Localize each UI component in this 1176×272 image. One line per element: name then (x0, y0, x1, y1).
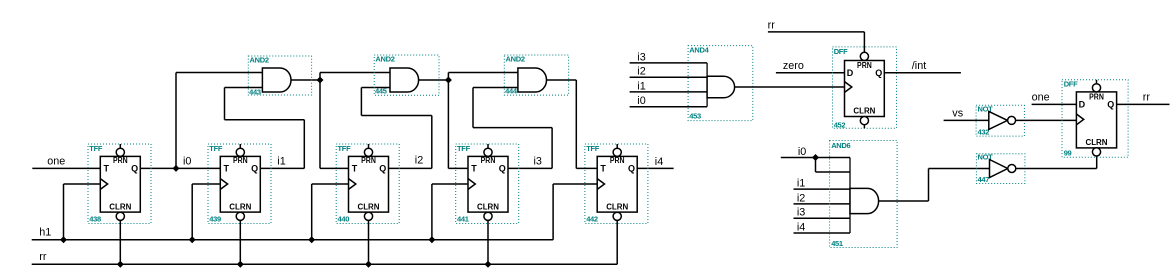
svg-text:i4: i4 (655, 156, 663, 168)
T flip-flop 439 (TFF) (208, 144, 271, 224)
svg-text:one: one (1032, 91, 1050, 103)
wire: AND4 453 output to DFF 452 clock (735, 86, 845, 88)
AND2 gate 444 (504, 55, 568, 96)
svg-text:Q: Q (379, 163, 386, 173)
svg-text:i3: i3 (797, 207, 805, 219)
svg-text:Q: Q (251, 163, 258, 173)
label: net name i1 (AND4 input) (637, 80, 645, 92)
label: net name h1 (39, 226, 51, 238)
label: net name i1 (277, 156, 285, 168)
svg-text:CLRN: CLRN (477, 202, 499, 211)
wire: net "zero" into DFF 452 D input (776, 72, 845, 74)
svg-text:TFF: TFF (338, 144, 352, 153)
svg-text:Q: Q (1107, 99, 1114, 109)
wire: AND2 445 output (419, 79, 449, 81)
svg-text:i1: i1 (277, 156, 285, 168)
T flip-flop 442 (TFF) (585, 144, 648, 224)
svg-text:one: one (47, 156, 65, 168)
svg-text:PRN: PRN (610, 156, 625, 165)
junction: h1 to TFF 439 clock (189, 236, 196, 243)
junction: rr to TFF 441 CLRN (485, 261, 492, 268)
label: net name i1 (AND6 input) (797, 178, 805, 190)
T flip-flop 438 (TFF) (88, 144, 151, 224)
svg-text:AND4: AND4 (689, 45, 709, 54)
wire: i0 tie-down to AND6 second input (816, 158, 851, 173)
wire: AND 443 output down to TFF440 T (320, 80, 349, 168)
svg-text:i3: i3 (637, 51, 645, 63)
svg-text:AND2: AND2 (375, 55, 394, 64)
svg-text:i2: i2 (415, 154, 423, 166)
svg-text:i1: i1 (797, 178, 805, 190)
svg-text:i4: i4 (797, 221, 805, 233)
wire: net i0 into AND6 451 (781, 157, 850, 159)
label: net name one (right) (1032, 91, 1050, 103)
wire: AND2 443 output (291, 79, 320, 81)
wire: AND 445 output down to TFF441 T (448, 80, 468, 168)
svg-text:h1: h1 (39, 226, 51, 238)
D flip-flop 99 (DFF) (1062, 79, 1128, 157)
label: net name i0 (AND6 input) (798, 146, 806, 158)
wire: AND4 453 input i0 (630, 106, 708, 108)
svg-text:432: 432 (978, 128, 990, 137)
svg-text:i1: i1 (637, 80, 645, 92)
junction: h1 to TFF 440 clock (308, 236, 315, 243)
svg-text:i2: i2 (637, 66, 645, 78)
label: net name i4 (655, 156, 663, 168)
svg-text:444: 444 (505, 87, 518, 96)
junction: AND2 445 output node (445, 77, 452, 84)
wire: clock of TFF 438 down to h1 (64, 184, 101, 240)
svg-text:rr: rr (768, 19, 776, 31)
junction: h1 to TFF 441 clock (428, 236, 435, 243)
wire: AND 443 output to AND2 445 top input (320, 73, 390, 81)
wire: net i4 into AND6 451 (794, 232, 851, 234)
label: net name i0 (183, 155, 191, 167)
label: net name i2 (AND6 input) (797, 192, 805, 204)
svg-text:447: 447 (978, 175, 990, 184)
wire: net h1 horizontal rail (32, 239, 553, 241)
NOT gate 447 (976, 153, 1025, 184)
svg-text:CLRN: CLRN (358, 202, 380, 211)
svg-text:CLRN: CLRN (606, 202, 628, 211)
label: net name /int (912, 60, 926, 72)
wire: clock of TFF 441 down to h1 (432, 184, 468, 240)
svg-text:DFF: DFF (834, 47, 848, 56)
svg-text:Q: Q (628, 163, 635, 173)
svg-text:i0: i0 (183, 155, 191, 167)
wire: net i1 from TFF439 Q to AND2 443 bottom input tap (260, 167, 304, 169)
wire: net i2 into AND6 451 (794, 203, 851, 205)
svg-text:442: 442 (586, 214, 598, 223)
svg-text:rr: rr (1143, 91, 1151, 103)
T flip-flop 440 (TFF) (336, 144, 399, 224)
svg-text:i0: i0 (798, 146, 806, 158)
wire: i0 riser up to AND2 443 top input (176, 73, 262, 169)
label: net name i2 (AND4 input) (637, 66, 645, 78)
svg-text:TFF: TFF (457, 144, 471, 153)
wire: AND2 444 output down to TFF442 T (547, 80, 598, 168)
label: net name i4 (AND6 input) (797, 221, 805, 233)
wire: AND4 453 input i2 (630, 76, 708, 78)
wire: i1 staircase to AND2 443 bottom input (225, 88, 305, 169)
svg-text:D: D (1079, 99, 1086, 109)
wire: clock of TFF 440 down to h1 (312, 184, 349, 240)
wire: i2 staircase to AND2 445 bottom input (361, 88, 431, 169)
wire: AND 445 output to AND2 444 top input (448, 73, 518, 81)
wire: net i3 into AND6 451 (794, 217, 851, 219)
svg-text:TFF: TFF (89, 144, 103, 153)
svg-text:Q: Q (875, 68, 882, 78)
svg-text:Q: Q (131, 163, 138, 173)
wire: net "one" into TFF 438 T input (32, 167, 100, 169)
svg-text:PRN: PRN (857, 61, 872, 70)
svg-text:zero: zero (783, 60, 804, 72)
svg-text:PRN: PRN (481, 156, 496, 165)
wire: CLRN of TFF 441 down to rr (487, 220, 489, 264)
wire: i3 staircase to AND2 444 bottom input (473, 88, 552, 169)
wire: clock of TFF 442 from h1 end riser (553, 184, 597, 240)
label: net name i3 (534, 156, 542, 168)
AND4 gate 453 (688, 45, 753, 120)
svg-text:443: 443 (249, 88, 261, 97)
label: net name zero (783, 60, 804, 72)
svg-text:i0: i0 (637, 95, 645, 107)
wire: AND6 451 output to NOT 447 input (879, 169, 990, 202)
D flip-flop 452 (DFF) (833, 47, 897, 129)
svg-text:PRN: PRN (361, 156, 376, 165)
label: net name rr (top) (768, 19, 776, 31)
svg-text:Q: Q (499, 163, 506, 173)
svg-text:T: T (224, 163, 230, 173)
wire: CLRN of TFF 440 down to rr (368, 220, 370, 264)
svg-text:DFF: DFF (1064, 79, 1078, 88)
svg-text:PRN: PRN (1089, 92, 1104, 101)
svg-text:TFF: TFF (209, 144, 223, 153)
svg-text:438: 438 (89, 214, 101, 223)
label: net name i0 (AND4 input) (637, 95, 645, 107)
svg-text:T: T (600, 163, 606, 173)
AND6 gate 451 (830, 141, 898, 249)
svg-text:CLRN: CLRN (229, 202, 251, 211)
svg-text:T: T (352, 163, 358, 173)
wire: net rr to DFF 452 PRN (768, 32, 865, 53)
wire: net i1 into AND6 451 (794, 188, 851, 190)
svg-text:/int: /int (912, 60, 926, 72)
wire: AND4 453 input i1 (630, 91, 708, 93)
svg-text:439: 439 (209, 214, 221, 223)
wire: CLRN of TFF 438 down to rr (119, 220, 121, 264)
svg-text:i3: i3 (534, 156, 542, 168)
svg-text:T: T (471, 163, 477, 173)
svg-text:452: 452 (834, 120, 846, 129)
wire: net rr horizontal rail (32, 263, 618, 265)
wire: net rr from DFF 99 Q output (1117, 103, 1170, 105)
svg-text:445: 445 (375, 87, 387, 96)
wire: net /int from DFF 452 Q (884, 72, 961, 74)
label: net name rr (right) (1143, 91, 1151, 103)
wire: CLRN of TFF 442 from rr end riser (616, 220, 618, 264)
wire: net i2 from TFF440 Q to AND2 445 bottom input tap (389, 167, 432, 169)
T flip-flop 441 (TFF) (456, 144, 519, 224)
svg-text:T: T (104, 163, 110, 173)
wire: net "one" into DFF 99 D input (1032, 103, 1077, 105)
label: net name i3 (AND6 input) (797, 207, 805, 219)
svg-text:vs: vs (952, 108, 963, 120)
svg-text:441: 441 (457, 214, 469, 223)
label: net name i3 (AND4 input) (637, 51, 645, 63)
wire: CLRN of TFF 439 down to rr (239, 220, 241, 264)
svg-text:451: 451 (831, 239, 843, 248)
svg-text:i2: i2 (797, 192, 805, 204)
wire: NOT 447 output up to DFF 99 CLRN (1016, 156, 1097, 169)
label: net name rr (39, 251, 47, 263)
svg-text:453: 453 (689, 112, 701, 121)
wire: net i4 from TFF442 Q (637, 167, 673, 169)
AND2 gate 445 (374, 55, 439, 96)
svg-text:AND2: AND2 (506, 55, 525, 64)
wire: net "vs" into NOT 432 (944, 119, 989, 121)
svg-text:440: 440 (338, 214, 350, 223)
wire: NOT 432 output to DFF 99 clock (1016, 119, 1077, 121)
svg-text:PRN: PRN (113, 156, 128, 165)
svg-text:PRN: PRN (233, 156, 248, 165)
svg-text:CLRN: CLRN (109, 202, 131, 211)
junction: AND2 443 output node (317, 77, 324, 84)
wire: net i0 from TFF438 Q to TFF439 T (140, 167, 220, 169)
wire: clock of TFF 439 down to h1 (192, 184, 220, 240)
svg-text:AND6: AND6 (831, 141, 850, 150)
NOT gate 432 (976, 105, 1024, 137)
junction: h1 to TFF 438 clock (60, 236, 67, 243)
svg-text:TFF: TFF (586, 144, 600, 153)
AND2 gate 443 (248, 56, 311, 97)
junction: rr to TFF 439 CLRN (237, 261, 244, 268)
junction: i0 tied to second AND6 input (812, 154, 819, 161)
label: net name i2 (415, 154, 423, 166)
junction: i0 tap to AND2 443 top input (173, 165, 180, 172)
label: net name one (47, 156, 65, 168)
wire: AND4 453 input i3 (630, 62, 708, 64)
svg-text:rr: rr (39, 251, 47, 263)
svg-text:99: 99 (1064, 148, 1072, 157)
wire: net i3 from TFF441 Q to AND2 444 bottom input tap (508, 167, 552, 169)
svg-text:CLRN: CLRN (853, 106, 875, 115)
junction: rr to TFF 440 CLRN (365, 261, 372, 268)
svg-text:CLRN: CLRN (1086, 138, 1108, 147)
svg-text:D: D (847, 68, 854, 78)
svg-text:AND2: AND2 (250, 56, 269, 65)
junction: rr to TFF 438 CLRN (117, 261, 124, 268)
label: net name vs (952, 108, 963, 120)
